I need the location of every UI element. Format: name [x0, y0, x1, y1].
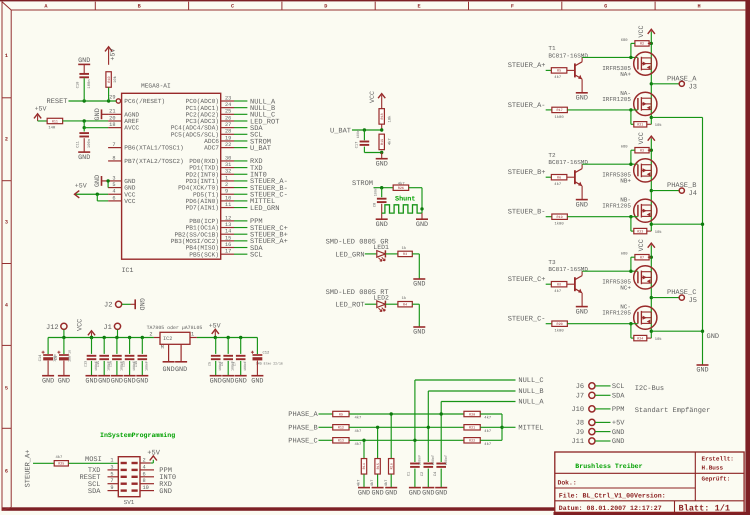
svg-text:GND: GND: [159, 488, 172, 496]
connector J3 pad: [679, 81, 684, 86]
wire source to gnd bus block B: [651, 223, 702, 225]
svg-text:7: 7: [112, 142, 115, 148]
svg-text:GND: GND: [94, 175, 102, 187]
svg-text:Brushless Treiber: Brushless Treiber: [575, 463, 642, 470]
svg-text:26: 26: [225, 115, 231, 121]
svg-text:+5V: +5V: [209, 322, 221, 329]
svg-text:4k7: 4k7: [398, 181, 405, 186]
svg-text:GND: GND: [612, 438, 625, 446]
resistor R10 10k: [106, 72, 112, 88]
wire STEUER_A+ to R25: [33, 462, 54, 464]
ground rotated at J2: [135, 298, 145, 310]
svg-text:J12: J12: [46, 324, 59, 332]
IC1 pin 19 ADC6 stub: [221, 140, 234, 142]
capacitor C2 100nF: [424, 464, 434, 467]
svg-text:PHASE_A: PHASE_A: [288, 411, 318, 419]
junction NULL_B / PHASE_B: [427, 426, 430, 429]
IC1 pin 2 PD4(XCK/T0) stub: [221, 187, 234, 189]
wire net INT0 pin 32: [234, 173, 247, 175]
elcap C12: [256, 338, 258, 355]
svg-text:GND: GND: [358, 489, 370, 497]
wire C17 to gnd elbow: [363, 147, 365, 153]
IC1 pin 3 GND stub: [108, 180, 122, 182]
mosfet IRFR1205 NA- symbol: [634, 92, 657, 115]
wire C9 to gnd: [63, 361, 65, 376]
svg-text:C4: C4: [433, 471, 438, 476]
svg-text:SCL: SCL: [250, 251, 263, 259]
IC2 pin 1 stub: [190, 337, 197, 339]
svg-text:STEUER_A+: STEUER_A+: [25, 450, 33, 488]
svg-text:4: 4: [112, 189, 115, 195]
wire base resistor to transistor: [567, 176, 574, 178]
svg-text:PC6(/RESET): PC6(/RESET): [124, 98, 165, 105]
svg-text:R20: R20: [469, 412, 475, 417]
svg-text:9: 9: [225, 189, 228, 195]
IC1 pin 32 PD2(INT0) stub: [221, 173, 234, 175]
svg-text:30: 30: [225, 155, 231, 161]
svg-text:18k: 18k: [388, 115, 393, 123]
svg-text:NA+: NA+: [620, 71, 631, 78]
IC1 pin 14 PB2(SS/OC1B) stub: [221, 233, 234, 235]
svg-text:LED_GRN: LED_GRN: [250, 205, 279, 213]
svg-text:3: 3: [110, 464, 113, 470]
ground below T2: [576, 200, 588, 210]
svg-text:Erstellt:: Erstellt:: [702, 456, 734, 463]
capacitor C1 100nF: [410, 464, 420, 467]
ground below C18: [136, 376, 148, 386]
svg-text:R11: R11: [52, 119, 58, 124]
wire net SCL pin 17: [234, 253, 247, 255]
svg-text:4k7: 4k7: [355, 442, 362, 447]
resistor R14 4k7 vertical: [361, 459, 367, 475]
svg-text:10k: 10k: [655, 230, 663, 235]
wire R2 to gate node: [631, 42, 635, 44]
svg-text:G: G: [604, 4, 607, 10]
svg-text:H.Buss: H.Buss: [702, 465, 724, 472]
wire bus to C7: [240, 338, 242, 354]
wire R16 to gnd: [390, 474, 392, 487]
junction MITTEL star: [500, 426, 503, 429]
wire J11 stub: [595, 440, 610, 442]
svg-text:NC+: NC+: [620, 285, 631, 292]
svg-text:GND: GND: [210, 377, 222, 385]
wire C8 to gnd: [381, 204, 383, 219]
svg-text:5: 5: [5, 386, 8, 392]
ground below R19: [381, 153, 383, 159]
svg-text:7: 7: [110, 478, 113, 484]
svg-text:4: 4: [143, 464, 146, 470]
wire VCC vertical block B: [650, 139, 652, 191]
wire STEUER_A- to resistor: [546, 109, 552, 111]
wire net MITTEL pin 10: [234, 200, 247, 202]
svg-text:1k: 1k: [402, 246, 407, 251]
resistor R9 4k7: [333, 411, 349, 417]
svg-text:STEUER_B-: STEUER_B-: [508, 209, 546, 217]
svg-text:1k00: 1k00: [555, 329, 565, 334]
svg-text:C2: C2: [420, 471, 425, 476]
svg-text:T2: T2: [548, 152, 556, 159]
svg-text:GND: GND: [111, 377, 123, 385]
svg-text:IC2: IC2: [163, 336, 172, 342]
svg-text:R13: R13: [338, 439, 344, 444]
ground below R14: [358, 488, 370, 498]
junction AREF branch: [83, 119, 86, 122]
svg-text:17: 17: [225, 249, 231, 255]
connector SV1 pads row 5: [121, 489, 127, 491]
wire C6 to gnd: [227, 361, 229, 376]
svg-text:AVCC: AVCC: [124, 125, 139, 132]
title block dividers: [555, 472, 744, 474]
resistor R13 4k7: [333, 438, 349, 444]
svg-text:100n: 100n: [373, 188, 378, 196]
svg-text:GND: GND: [42, 377, 54, 385]
elcap C14: [47, 338, 49, 355]
svg-text:J1: J1: [103, 324, 111, 332]
resistor R3 1k: [398, 251, 412, 257]
svg-text:VCC: VCC: [638, 132, 646, 144]
svg-text:Version:: Version:: [634, 493, 666, 500]
IC1 pin 30 PD0(RXD) stub: [221, 160, 234, 162]
svg-text:R24: R24: [637, 336, 643, 341]
wire C16 to gnd: [116, 361, 118, 376]
wire R22 to star: [480, 439, 502, 441]
svg-text:1: 1: [191, 332, 194, 338]
resistor R8 4k7: [551, 282, 567, 288]
SV1 left pin 3: [108, 469, 119, 471]
svg-text:GND: GND: [696, 367, 708, 375]
wire +5V to R11: [38, 120, 48, 122]
svg-text:100n: 100n: [87, 79, 92, 88]
svg-text:GND: GND: [78, 154, 90, 162]
svg-text:C19: C19: [121, 361, 126, 367]
svg-text:MOSI: MOSI: [85, 456, 102, 464]
wire gate P-fet block A: [582, 56, 638, 58]
svg-text:100nF: 100nF: [431, 455, 436, 466]
svg-text:J5: J5: [689, 297, 697, 305]
wire NULL_C net: [415, 379, 516, 381]
IC1 pin 8 PB7(XTAL2/TOSC2) stub: [108, 160, 122, 162]
svg-text:C12: C12: [263, 351, 271, 356]
junction R19/C17 gnd node: [380, 151, 383, 154]
svg-text:PHASE_B: PHASE_B: [288, 425, 317, 433]
ground below C13: [85, 376, 97, 386]
junction R14 top: [362, 439, 365, 442]
wire net RXD pin 30: [234, 160, 247, 162]
svg-text:10k: 10k: [655, 123, 663, 128]
shunt resistor wave: [382, 205, 422, 213]
svg-text:4k7: 4k7: [388, 138, 393, 145]
svg-text:NULL_A: NULL_A: [518, 399, 544, 407]
svg-text:C8: C8: [372, 202, 377, 207]
svg-text:GND: GND: [409, 489, 421, 497]
wire R10 to RESET: [108, 87, 110, 101]
wire gate P-fet block C: [582, 270, 638, 272]
svg-text:R3: R3: [403, 252, 407, 257]
wire VCC bus left: [48, 337, 154, 339]
junction R2 VCC side: [650, 42, 653, 45]
ground below T3: [576, 307, 588, 317]
supply VCC block C: [648, 243, 655, 248]
svg-text:2: 2: [149, 332, 152, 338]
wire LED_ROT to LED: [365, 303, 377, 305]
wire C1 to gnd: [414, 469, 416, 488]
wire net LED_ROT pin 26: [234, 120, 247, 122]
wire C4 to gnd: [440, 469, 442, 488]
svg-text:J8: J8: [576, 420, 584, 428]
svg-text:GND: GND: [85, 377, 97, 385]
svg-text:1: 1: [225, 175, 228, 181]
supply VCC arrow on bus: [88, 331, 95, 338]
svg-text:R17: R17: [557, 108, 563, 113]
svg-text:R8: R8: [557, 283, 561, 288]
ground below C15: [98, 376, 110, 386]
svg-text:4k7: 4k7: [484, 442, 491, 447]
svg-text:GND: GND: [251, 377, 263, 385]
ground below C4: [435, 488, 447, 498]
supply VCC block A: [648, 29, 655, 34]
wire C15 to gnd: [103, 361, 105, 376]
svg-text:R25: R25: [58, 462, 64, 467]
ground below C14: [42, 376, 54, 386]
svg-text:16: 16: [225, 242, 231, 248]
svg-text:+5V: +5V: [612, 420, 625, 428]
svg-text:GND: GND: [58, 377, 70, 385]
svg-text:PB7(XTAL2/TOSC2): PB7(XTAL2/TOSC2): [124, 158, 183, 165]
mosfet IRFR1205 NB- symbol: [634, 199, 657, 222]
IC1 pin 10 PD6(AIN0) stub: [221, 200, 234, 202]
svg-text:Blatt: 1/1: Blatt: 1/1: [679, 503, 731, 513]
svg-text:R9: R9: [339, 412, 343, 417]
svg-text:R21: R21: [637, 123, 643, 128]
svg-text:C6: C6: [220, 362, 225, 366]
wire C7 to gnd: [240, 361, 242, 376]
svg-text:4k7: 4k7: [56, 455, 63, 460]
svg-text:H: H: [697, 4, 700, 10]
SV1 right pin 8: [140, 483, 154, 485]
wire C11 to ground: [83, 138, 85, 152]
wire R21 to star: [480, 426, 502, 428]
junction source node block C: [650, 330, 653, 333]
svg-text:PD7(AIN1): PD7(AIN1): [186, 205, 219, 212]
svg-text:1: 1: [5, 53, 8, 59]
junction bus C18: [141, 336, 144, 339]
svg-text:100nF: 100nF: [444, 455, 449, 466]
junction bus block B: [701, 223, 704, 226]
svg-text:GND: GND: [416, 221, 428, 229]
wire bus to C19: [129, 338, 131, 354]
svg-text:Geprüft:: Geprüft:: [702, 476, 731, 483]
svg-text:100nF: 100nF: [145, 361, 149, 371]
resistor R12 4k7: [333, 425, 349, 431]
wire net NULL_C pin 25: [234, 113, 247, 115]
frame corner bevels: [2, 2, 11, 10]
svg-text:21: 21: [109, 109, 115, 115]
junction AVCC branch: [83, 126, 86, 129]
IC1 pin 13 PB1(OC1A) stub: [221, 227, 234, 229]
svg-text:4k7: 4k7: [355, 416, 362, 421]
wire PHASE to N-fet drain block B: [650, 191, 652, 225]
junction U_BAT/R19: [380, 128, 383, 131]
svg-text:10k: 10k: [113, 75, 118, 83]
wire emitter down to gnd: [581, 79, 583, 93]
resistor R4 1k: [398, 302, 412, 308]
svg-text:D: D: [324, 4, 327, 10]
IC1 pin 16 PB4(MISO) stub: [221, 247, 234, 249]
svg-text:13: 13: [225, 222, 231, 228]
ground below C16: [111, 376, 123, 386]
wire net STEUER_A+ pin 15: [234, 240, 247, 242]
svg-text:R23: R23: [637, 229, 643, 234]
wire C13 to gnd: [91, 361, 93, 376]
svg-text:8: 8: [112, 155, 115, 161]
connector J4 pad: [679, 188, 684, 193]
wire J1 to bus: [117, 330, 119, 338]
wire source to gnd bus block C: [651, 330, 702, 332]
wire bus to C16: [116, 338, 118, 354]
ground below C11: [78, 152, 90, 162]
ground below R15: [371, 488, 383, 498]
junction gate P block A: [629, 56, 632, 59]
capacitor C13 100nF: [87, 356, 97, 359]
svg-text:R26: R26: [398, 186, 404, 191]
frame inner rectangle: [10, 10, 12, 507]
svg-text:100n: 100n: [87, 139, 92, 148]
svg-text:LED2: LED2: [373, 294, 389, 301]
wire STEUER_A+ to base resistor: [546, 69, 552, 71]
svg-text:PHASE_B: PHASE_B: [667, 182, 696, 190]
wire RESET net: [69, 100, 117, 102]
IC1 pin 7 PB6(XTAL1/TOSC1) stub: [108, 147, 122, 149]
IC1 pin 27 PC4(ADC4/SDA) stub: [221, 127, 234, 129]
wire gate to pulldown: [630, 324, 632, 338]
IC1 pin 4 VCC stub: [108, 193, 122, 195]
IC1 pin 15 PB3(MOSI/OC2) stub: [221, 240, 234, 242]
wire bus to C6: [227, 338, 229, 354]
svg-text:VCC: VCC: [124, 198, 135, 205]
resistor R11 14R: [47, 118, 63, 124]
wire NULL_B net: [428, 390, 515, 392]
IC1 pin 22 ADC7 stub: [221, 147, 234, 149]
ground below C5: [210, 376, 222, 386]
junction bus C19: [128, 336, 131, 339]
ground below C1: [409, 488, 421, 498]
wire R25 to SV1 pin1: [68, 462, 118, 464]
wire NULL_A net: [441, 401, 515, 403]
resistor R shunt filter 4k7: [393, 185, 409, 191]
svg-text:R19: R19: [557, 215, 563, 220]
svg-text:R16: R16: [389, 463, 394, 469]
svg-text:NULL_B: NULL_B: [518, 388, 543, 396]
wire PHASE_A to connector: [651, 83, 679, 85]
wire net STROM pin 19: [234, 140, 247, 142]
IC2 pin 2 stub: [154, 337, 160, 339]
wire star vertical: [501, 414, 503, 440]
connector SV1 pads row 3: [121, 476, 127, 478]
svg-text:GND: GND: [707, 333, 720, 341]
svg-text:4k7: 4k7: [384, 480, 389, 487]
LED LED2: [377, 301, 386, 312]
svg-text:PB5(SCK): PB5(SCK): [189, 251, 219, 258]
resistor R18 18k: [379, 109, 385, 125]
wire source to gnd bus block A: [651, 116, 702, 118]
IC1 pin 12 PB0(ICP) stub: [221, 220, 234, 222]
svg-text:1k00: 1k00: [555, 222, 565, 227]
svg-text:6: 6: [143, 471, 146, 477]
svg-text:C15: C15: [96, 361, 101, 367]
junction PHASE_B node: [650, 189, 653, 192]
svg-text:C9: C9: [54, 355, 59, 360]
wire R15 to gnd: [377, 474, 379, 487]
wire C18 to gnd: [141, 361, 143, 376]
svg-text:23: 23: [225, 95, 231, 101]
svg-text:Dok.:: Dok.:: [558, 479, 577, 486]
svg-text:C1: C1: [407, 471, 412, 476]
resistor R3 680: [635, 148, 649, 154]
wire resistor to gnd corner: [412, 253, 419, 255]
svg-text:28: 28: [225, 129, 231, 135]
svg-text:GND: GND: [413, 329, 425, 337]
wire VCC pins 4-6: [96, 194, 98, 201]
wire R20 to star: [480, 413, 502, 415]
svg-text:GND: GND: [162, 366, 174, 374]
svg-text:PB6(XTAL1/TOSC1): PB6(XTAL1/TOSC1): [124, 145, 183, 152]
svg-text:R21: R21: [469, 426, 475, 431]
svg-text:GND: GND: [576, 308, 588, 316]
ground bottom of bus: [696, 365, 708, 375]
svg-text:+5V: +5V: [75, 182, 87, 189]
svg-text:9: 9: [110, 485, 113, 491]
wire LED to resistor: [386, 253, 398, 255]
svg-text:C7: C7: [233, 362, 238, 366]
wire PHASE to N-fet drain block C: [650, 298, 652, 332]
junction bus C15: [103, 336, 106, 339]
junction R15 top: [376, 426, 379, 429]
svg-text:U_BAT: U_BAT: [250, 145, 271, 153]
svg-text:32: 32: [225, 169, 231, 175]
svg-text:2: 2: [5, 136, 8, 142]
svg-text:GND: GND: [612, 429, 625, 437]
wire net NULL_A pin 23: [234, 100, 247, 102]
svg-text:22: 22: [225, 142, 231, 148]
svg-text:TA7805 oder µA78L05: TA7805 oder µA78L05: [147, 325, 203, 331]
svg-text:C5: C5: [208, 362, 213, 366]
IC1 pin 26 PC3(ADC3) stub: [221, 120, 234, 122]
junction R3 VCC side: [650, 149, 653, 152]
svg-text:4k7: 4k7: [484, 416, 491, 421]
IC1 pin 9 PD5(T1) stub: [221, 193, 234, 195]
resistor R21 10k: [634, 122, 647, 128]
svg-text:R5: R5: [557, 69, 561, 74]
junction shunt right: [420, 207, 423, 210]
resistor R25 4k7: [54, 461, 68, 467]
svg-text:R3: R3: [640, 149, 644, 154]
junction bus C16: [115, 336, 118, 339]
IC1 pin 21 AGND stub: [108, 113, 122, 115]
junction +5V arrow bus: [214, 336, 217, 339]
svg-text:29: 29: [109, 94, 115, 100]
svg-text:18: 18: [109, 122, 115, 128]
wire pulldown to source: [647, 230, 652, 232]
junction gate P block C: [629, 270, 632, 273]
svg-text:GND: GND: [78, 57, 90, 65]
svg-text:4: 4: [5, 303, 8, 309]
wire PHASE_B to connector: [651, 190, 679, 192]
wire bus to C18: [141, 338, 143, 354]
svg-text:5: 5: [110, 471, 113, 477]
wire net STEUER_C- pin 9: [234, 193, 247, 195]
connector SV1 pads row 4: [121, 483, 127, 485]
junction RESET/C10: [83, 99, 86, 102]
